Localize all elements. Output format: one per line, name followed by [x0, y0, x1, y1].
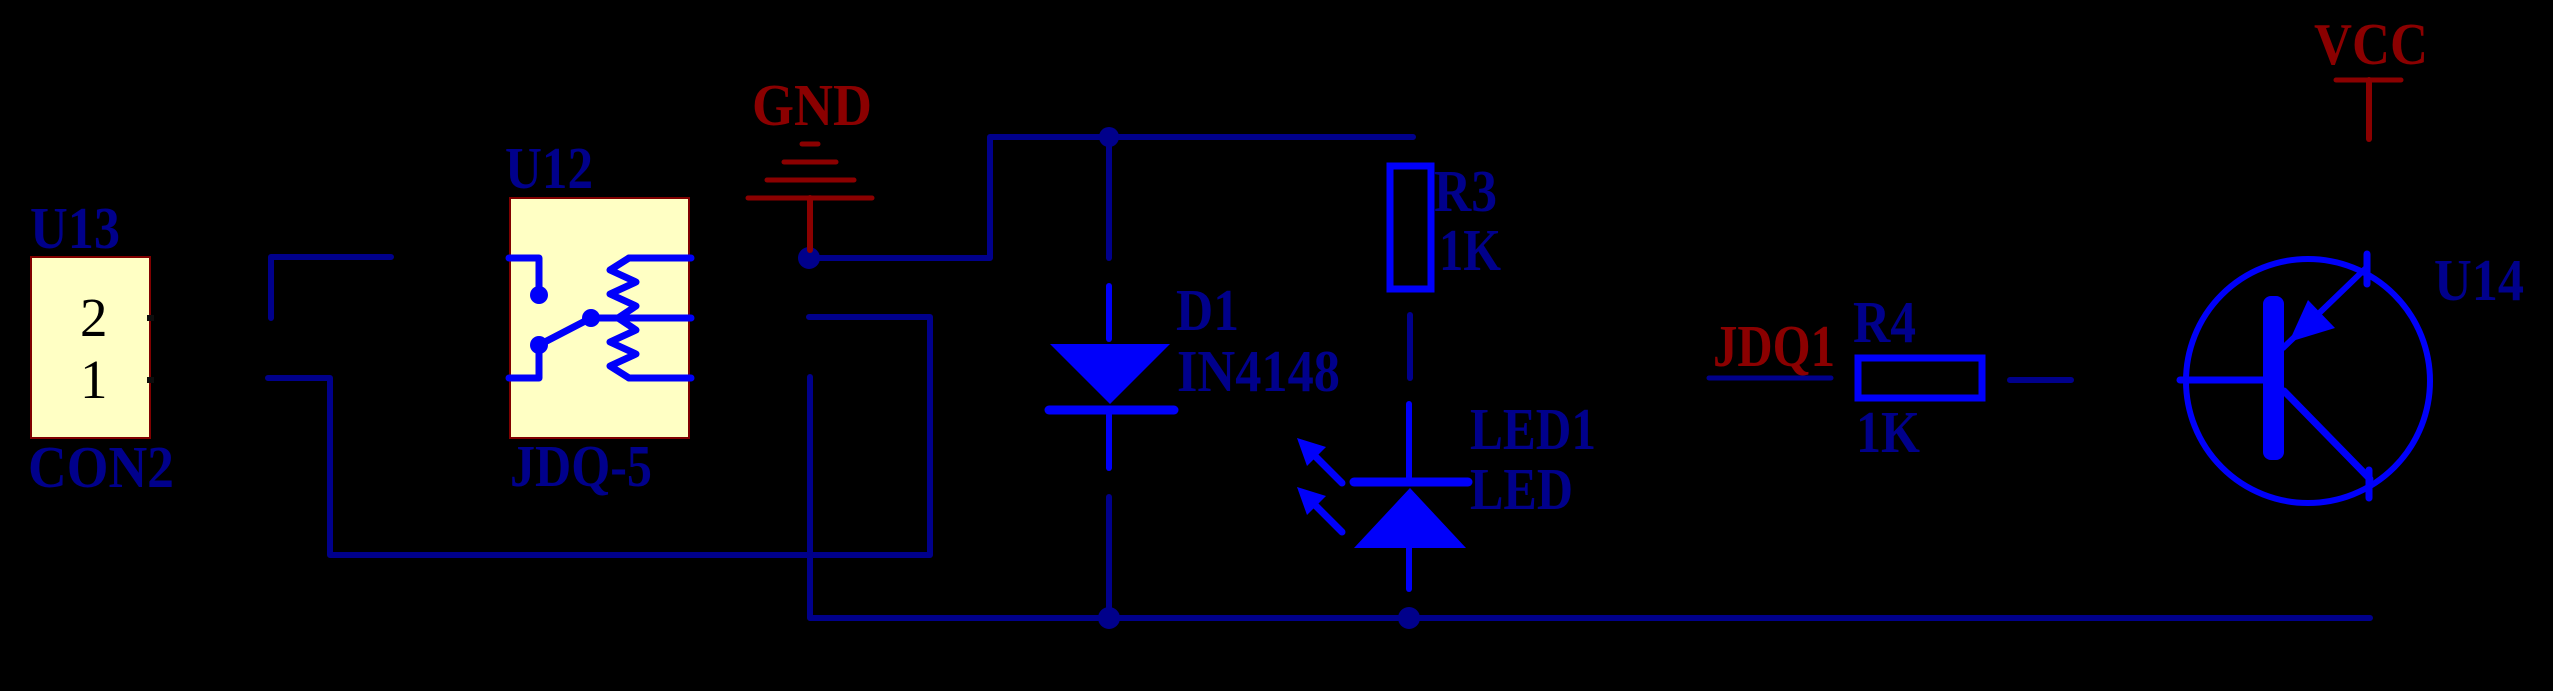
svg-text:GND: GND	[752, 72, 872, 138]
svg-text:LED: LED	[1470, 456, 1573, 522]
svg-text:U12: U12	[505, 135, 593, 201]
svg-text:1: 1	[80, 349, 108, 410]
svg-text:LED1: LED1	[1470, 396, 1596, 462]
svg-text:JDQ-5: JDQ-5	[510, 433, 652, 499]
svg-text:VCC: VCC	[2314, 11, 2428, 77]
svg-text:IN4148: IN4148	[1177, 338, 1340, 404]
svg-text:1K: 1K	[1439, 217, 1501, 283]
svg-text:U13: U13	[30, 195, 120, 261]
svg-text:U14: U14	[2434, 247, 2524, 313]
svg-text:R4: R4	[1853, 289, 1916, 355]
svg-text:JDQ1: JDQ1	[1713, 313, 1835, 379]
svg-text:R3: R3	[1434, 158, 1497, 224]
svg-text:1K: 1K	[1856, 399, 1920, 465]
svg-text:CON2: CON2	[28, 434, 174, 500]
svg-text:2: 2	[80, 287, 108, 348]
svg-text:D1: D1	[1176, 277, 1239, 343]
